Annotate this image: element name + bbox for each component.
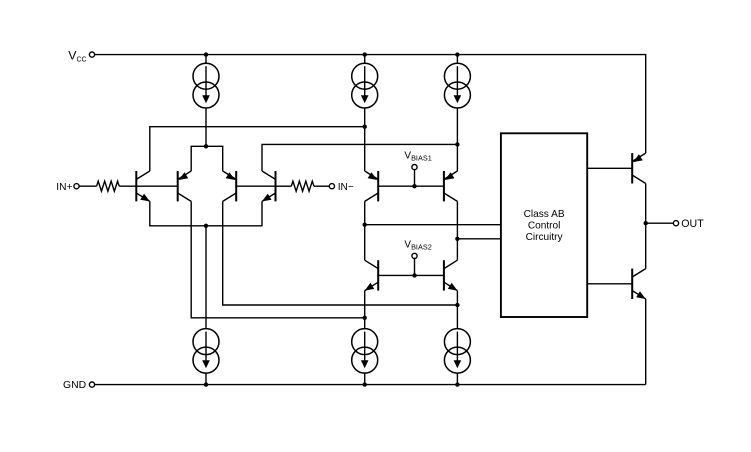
wire Q4 base to R2 — [276, 185, 292, 187]
junction VBIAS1 node — [412, 184, 416, 188]
junction VCC/I3 — [455, 52, 459, 56]
wire left rail to class AB box — [365, 224, 501, 226]
wire Q3 collector to right rail bottom — [223, 201, 458, 305]
wire class AB box to Q9 base — [587, 167, 632, 169]
wire Q5 base to Q6 base — [378, 185, 444, 187]
wire I6 to GND — [456, 373, 458, 385]
svg-text:GND: GND — [63, 380, 86, 391]
block U1: Class AB Control Circuitry — [501, 133, 587, 317]
wire Q9 collector to Q10 collector — [645, 184, 647, 269]
wire left rail Q5 collector to Q7 collector — [364, 201, 366, 260]
wire Q1 base to Q2 base — [136, 185, 177, 187]
transistor Q1 (NPN, IN+) — [136, 171, 150, 201]
svg-text:Control: Control — [528, 221, 561, 232]
junction GND/I4 — [204, 382, 208, 386]
wire I5 to GND — [364, 373, 366, 385]
junction emitter bus / I4 — [204, 224, 208, 228]
net GND: rail wire — [95, 384, 646, 386]
junction left rail / Q2 collector wire — [363, 316, 367, 320]
wire emitter bus to I4 — [205, 226, 207, 329]
GND terminal — [89, 382, 94, 387]
wire OUT — [646, 222, 674, 224]
wire Q1 collector to left rail — [150, 127, 365, 171]
current source I1 — [193, 63, 219, 108]
junction VCC/I1 — [204, 52, 208, 56]
junction right rail / class AB input — [455, 237, 459, 241]
VCC terminal — [89, 52, 94, 57]
current source I5 — [352, 329, 378, 374]
transistor Q8 (NPN, second stage right) — [444, 260, 458, 290]
wire VBIAS1 terminal — [414, 170, 416, 187]
VBIAS2 terminal — [412, 253, 417, 258]
wire I2 down left rail (second stage) — [364, 108, 366, 171]
wire Q3 base to Q4 base — [236, 185, 275, 187]
wire Q4 collector to right rail — [262, 144, 457, 171]
wire R1 to Q1 base — [119, 185, 136, 187]
svg-text:OUT: OUT — [681, 218, 704, 230]
transistor Q2 (PNP, IN+) — [178, 171, 192, 201]
transistor Q9 (PNP, output high side) — [632, 153, 646, 183]
OUT terminal — [673, 221, 678, 226]
current source I6 — [444, 329, 470, 374]
transistor Q3 (PNP, IN-) — [223, 171, 237, 201]
junction GND/I6 — [455, 382, 459, 386]
current source I2 — [352, 63, 378, 108]
wire Q10 emitter to GND — [645, 299, 647, 385]
junction OUT node — [644, 221, 648, 225]
transistor Q6 (PNP, second stage right) — [444, 171, 458, 201]
junction Q1 collector / left rail — [363, 125, 367, 129]
wire Q2 collector to left rail bottom — [191, 201, 365, 317]
transistor Q10 (NPN, output low side) — [632, 269, 646, 299]
current source I3 — [444, 63, 470, 108]
net VCC: rail wire — [95, 55, 646, 154]
current source I4 — [193, 329, 219, 374]
svg-text:IN+: IN+ — [56, 182, 72, 193]
wire I3 down right rail (second stage) — [456, 108, 458, 171]
junction VCC/I2 — [363, 52, 367, 56]
wire NPN pair emitter bus — [150, 201, 262, 225]
junction right rail / Q3 collector wire — [455, 303, 459, 307]
IN- terminal — [329, 184, 334, 189]
wire IN+ to R1 — [79, 185, 97, 187]
wire VCC to I3 — [456, 55, 458, 64]
resistor R2 — [291, 181, 314, 191]
svg-text:Circuitry: Circuitry — [526, 232, 564, 243]
junction I1 / PNP emitters — [204, 144, 208, 148]
svg-text:IN−: IN− — [338, 182, 354, 193]
junction Q4 collector / right rail — [455, 142, 459, 146]
junction left rail / class AB input — [363, 223, 367, 227]
wire Q7 emitter to I5 — [364, 291, 366, 329]
wire R2 to IN- terminal — [314, 185, 329, 187]
wire class AB box to Q10 base — [587, 283, 632, 285]
svg-text:Class AB: Class AB — [524, 209, 565, 220]
resistor R1 — [97, 181, 120, 191]
junction GND/I5 — [363, 382, 367, 386]
wire PNP pair emitter node (bowtie) — [191, 146, 223, 171]
junction VBIAS2 node — [412, 273, 416, 277]
wire Q7 base to Q8 base — [378, 274, 444, 276]
wire VBIAS2 terminal — [414, 259, 416, 276]
VBIAS1 terminal — [412, 165, 417, 170]
transistor Q4 (NPN, IN-) — [262, 171, 276, 201]
transistor Q5 (PNP, second stage left) — [365, 171, 379, 201]
wire right rail to class AB box — [457, 238, 501, 240]
wire VCC to I1 — [205, 55, 207, 64]
wire I4 to GND — [205, 373, 207, 385]
IN+ terminal — [74, 184, 79, 189]
wire VCC to I2 — [364, 55, 366, 64]
wire Q8 emitter to I6 — [456, 291, 458, 329]
wire right rail Q6 collector to Q8 collector — [456, 201, 458, 260]
wire I1 to input pair node — [205, 108, 207, 146]
transistor Q7 (NPN, second stage left) — [365, 260, 379, 290]
